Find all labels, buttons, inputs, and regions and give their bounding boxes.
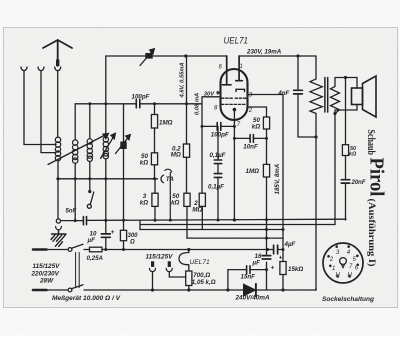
resistor R7 1MOhm — [263, 164, 269, 177]
op... tube UEL71 envelope — [221, 69, 248, 120]
wire R7 bottom down to lower rails — [266, 177, 268, 290]
wire top wire down to L4 — [105, 56, 107, 137]
wire R12 bottom to bus — [188, 286, 190, 291]
mains lower lead (thick) — [33, 289, 47, 292]
wire L3 bottom to bus1 — [89, 162, 91, 179]
antenna terminal hook 1 — [21, 67, 27, 71]
mains / heater rail y=249.5 — [102, 249, 283, 251]
transformer core — [325, 78, 328, 113]
rail y=229.5 — [140, 229, 283, 231]
wire L3 top — [89, 104, 91, 139]
coil L2 — [73, 140, 78, 163]
switch linkage bars — [76, 253, 80, 288]
corner bottom bus to B+ column — [315, 288, 317, 290]
node dot 185V bottom bus — [281, 288, 284, 291]
node dot rail229/16uF column — [265, 228, 268, 231]
wire R4 bottom to y=238 rail — [186, 206, 188, 238]
resistor R5 2MOhm — [199, 193, 205, 206]
TA clip on bus1 — [161, 175, 163, 182]
wire x=75.2 bus1 to bus2 — [74, 179, 76, 220]
tube pin 1 lead + plate — [236, 56, 243, 81]
capacitor C 100pF (cathode) — [217, 123, 221, 131]
capacitor C 100pF (series in grid wire) — [136, 100, 140, 108]
resistor R8 15kOhm — [280, 262, 286, 275]
antenna terminal hook 3 — [55, 67, 61, 71]
capacitor C 4uF — [274, 245, 278, 254]
node dots bus2 — [74, 219, 77, 222]
wire R3 bottom to R4 — [186, 157, 188, 193]
rectifier diode — [244, 284, 256, 296]
wire 15nF y=269.6 — [228, 270, 267, 290]
node dot L3 top — [88, 102, 91, 105]
node line y=104 (grid wire) — [75, 103, 202, 105]
scan noise texture — [0, 0, 1, 1]
wire hook1 down and right — [24, 71, 56, 145]
wire L2 bottom to bus1 — [74, 163, 76, 179]
node dot rail238/16uF column — [265, 237, 268, 240]
capacitor C 20nF — [341, 180, 349, 183]
resistor R11 3kOhm column — [154, 179, 156, 220]
node dot x=218 bus2 — [217, 219, 220, 222]
voice coil shunt column x=345.5 — [345, 78, 347, 221]
wire screen dropper x=186.5 — [186, 56, 188, 144]
mains upper lead (thick) — [33, 248, 47, 251]
grid stopper column x=202 with 30V stub — [202, 97, 221, 193]
wire L1 bottom to bus1 — [57, 161, 59, 179]
node dot 10nF / R6 — [265, 137, 268, 140]
rail y=224.5 (secondary return) — [140, 224, 335, 226]
heater of UEL71 (arc) — [179, 250, 189, 272]
socket keyhole — [340, 258, 347, 265]
B+ column x=316 down to bottom bus — [315, 114, 317, 291]
ground hook — [56, 227, 62, 230]
coil L4 (tuned, on line from top wire) — [103, 137, 108, 159]
trimmer capacitor on top wire — [145, 53, 152, 59]
wire y=126.4 (to cathode line) — [202, 125, 234, 127]
socket pin labels — [329, 250, 359, 279]
resistor R2 50kOhm — [151, 153, 157, 165]
node dots heater rail — [104, 248, 107, 251]
node dot x=202 y=126.4 — [201, 125, 204, 128]
capacitor C 0,1uF (upper) — [214, 160, 221, 164]
speaker return wire — [335, 105, 357, 114]
tube cathode — [233, 108, 237, 112]
node dot 185V/y229 rail — [282, 228, 285, 231]
bottom bus y=290 — [84, 289, 316, 291]
wire hook2 down and right — [41, 71, 56, 153]
riser from bus2 to lower rails at x=140 — [139, 220, 141, 229]
ground symbol — [52, 230, 67, 234]
node A (screen feed) — [184, 54, 187, 57]
AF coupling column x=218 with two 0,1uF caps — [217, 126, 219, 220]
ground terminal circle — [57, 179, 59, 219]
wire x=105.8 bus1-bus2 and 10uF to mains rail — [105, 179, 107, 250]
output transformer primary (zigzag) — [310, 56, 322, 114]
cathode line x=234.4 (pin 7) — [233, 111, 235, 221]
switch S1 (wave switch) on x=89.8 — [89, 179, 91, 190]
antenna — [43, 40, 72, 66]
secondary return column x=335 — [334, 114, 336, 225]
voltage selector plug 1 — [151, 261, 154, 267]
bus2 (chassis bus y=220) with 5nF gap — [61, 219, 347, 220]
fuse 0,25A — [84, 249, 90, 251]
node dot 185V/heater rail — [282, 248, 285, 251]
wire L2 top to node line — [74, 104, 76, 140]
resistor R10 300 Ohm — [120, 230, 126, 240]
resistor R4 50kOhm (bias divider) — [184, 193, 190, 206]
wire R5 bottom to y=229 rail — [201, 206, 203, 229]
node dot 4nF top — [296, 54, 299, 57]
variometer arrow through L1-L3 — [48, 133, 110, 165]
resistor R6 50kOhm (anode diode load) — [263, 117, 269, 129]
tube grid (dashed) row 2 — [222, 103, 247, 105]
capacitor C 10nF — [250, 135, 253, 143]
wire pin3 to 185V column — [248, 94, 284, 96]
node dots bus1 — [56, 177, 59, 180]
speaker — [352, 76, 377, 117]
wire y=138.4 — [234, 137, 266, 139]
capacitor C 15nF — [247, 266, 250, 274]
socket pin dots — [327, 245, 359, 277]
capacitor C 10uF electrolytic — [101, 234, 110, 237]
antenna plug — [56, 60, 59, 67]
top wire left segment — [106, 55, 227, 57]
resistor R1 1MOhm (vertical, x=154.5) — [154, 104, 156, 179]
top wire right segment — [239, 55, 316, 57]
coil L3 — [87, 139, 92, 162]
node dots 15nF wire — [265, 268, 268, 271]
node dots cathode line — [233, 125, 236, 128]
antenna terminal hook 2 — [38, 67, 44, 71]
secondary top wire to speaker — [335, 78, 357, 89]
bus1 (AVC bus y=178.8) — [58, 178, 158, 180]
tube socket circle — [323, 243, 363, 283]
node dot speaker tap — [344, 76, 347, 79]
resistor R3 0,2MOhm — [183, 144, 189, 157]
node dot 4nF joins B+ column — [314, 135, 317, 138]
wire pin2 to R6 — [248, 107, 267, 117]
variometer arrow through L4 — [101, 132, 117, 158]
capacitor C 5nF — [83, 217, 86, 225]
wire R6 bottom — [266, 129, 268, 164]
capacitor C 0,1uF (lower) — [214, 174, 221, 178]
185V column x=283 — [282, 95, 284, 291]
mains switch upper — [47, 249, 68, 251]
wire L4 bottom to bus1 — [105, 159, 107, 179]
trimmer capacitor C-trim (on L4 branch) — [123, 104, 125, 179]
tube grid (dashed) row 1 — [222, 97, 233, 99]
resistor R9 50kOhm (tone) — [342, 145, 348, 156]
rail y=238.1 — [187, 237, 283, 239]
wire hook3 down to coil L1 — [57, 71, 59, 138]
node dot x=186.5 on grid wire — [185, 102, 188, 105]
tube diode plate — [236, 89, 245, 91]
node dot L4 crossing — [104, 102, 107, 105]
capacitor C 16uF electrolytic (on x=266.5) — [262, 256, 271, 259]
mains switch lower — [47, 289, 68, 291]
capacitor C 4nF column — [298, 56, 316, 137]
resistor R12 700/1050 Ohm — [186, 271, 192, 286]
tube pin 6 lead + plate — [222, 56, 231, 85]
coil L1 (antenna coil) — [55, 137, 60, 161]
wire x=123.5 down through 300 Ohm to mains rail — [123, 179, 125, 250]
node dot R12 bottom — [187, 288, 190, 291]
voltage selector plug 2 — [168, 261, 171, 267]
output transformer secondary (zigzag) — [331, 78, 340, 114]
node dot grid wire / R1 — [153, 102, 156, 105]
TA plug arc + lead to bus2 — [165, 169, 172, 220]
